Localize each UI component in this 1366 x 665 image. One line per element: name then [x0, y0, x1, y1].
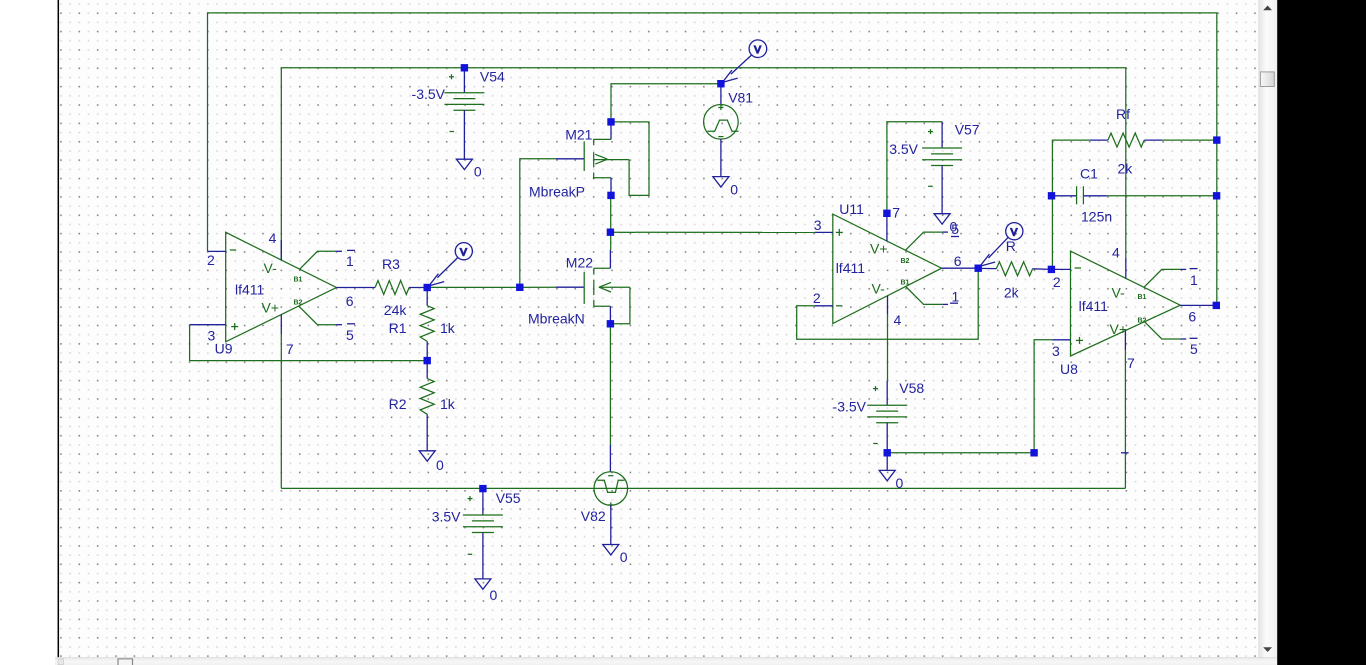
- M21 source lead: [594, 177, 611, 179]
- svg-text:lf411: lf411: [1079, 298, 1109, 314]
- junction Rf right: [1213, 136, 1220, 143]
- op-amp U9: [190, 230, 358, 357]
- M21 drain lead: [594, 138, 611, 140]
- svg-text:V: V: [460, 247, 467, 258]
- U8 triangle body: [1071, 251, 1181, 356]
- U11 offset pin 1: [906, 287, 943, 305]
- transistor M22 MbreakN: [528, 250, 630, 326]
- U8 offset pin 5: [1145, 322, 1181, 339]
- svg-text:0: 0: [620, 549, 628, 565]
- svg-text:6: 6: [1188, 309, 1196, 325]
- U8 pin 2 stub: [1051, 268, 1070, 270]
- junction M22 drain node: [607, 229, 614, 236]
- U9 triangle body: [226, 232, 337, 341]
- svg-text:6: 6: [346, 293, 354, 309]
- svg-text:6: 6: [954, 253, 962, 269]
- resistor Rf: [1090, 106, 1162, 177]
- svg-text:V82: V82: [581, 508, 606, 524]
- ground below V54: [456, 159, 482, 179]
- svg-text:V+: V+: [870, 241, 888, 257]
- svg-text:R2: R2: [389, 396, 407, 412]
- op-amp U11: [813, 201, 978, 328]
- svg-text:3.5V: 3.5V: [432, 508, 461, 524]
- svg-text:0: 0: [474, 164, 482, 180]
- U11 triangle body: [833, 214, 942, 323]
- svg-text:2: 2: [1053, 274, 1061, 290]
- svg-text:1k: 1k: [440, 396, 456, 412]
- svg-text:V81: V81: [728, 89, 753, 105]
- svg-text:-3.5V: -3.5V: [833, 399, 867, 415]
- svg-text:0: 0: [436, 457, 444, 473]
- svg-text:B2: B2: [294, 300, 303, 307]
- ground below V57: [934, 214, 957, 235]
- M21 gate pin: [556, 158, 584, 160]
- svg-text:0: 0: [490, 587, 498, 603]
- svg-text:3: 3: [1052, 343, 1060, 359]
- U8 pin 4 stub: [1125, 258, 1127, 278]
- svg-text:B2: B2: [901, 258, 910, 265]
- U11 pin 3 stub: [815, 231, 833, 233]
- svg-text:1: 1: [952, 289, 960, 305]
- transistor M21 MbreakP: [529, 122, 649, 200]
- U11 pin 6 output stub: [942, 267, 979, 269]
- svg-text:2k: 2k: [1004, 285, 1020, 301]
- svg-text:7: 7: [1127, 355, 1135, 371]
- junction U8 output: [1213, 302, 1220, 309]
- U9 pin 6 output stub: [336, 287, 357, 289]
- svg-text:0: 0: [730, 182, 738, 198]
- canvas left border line: [57, 0, 59, 657]
- wire C1 right: [1107, 195, 1217, 197]
- svg-text:M21: M21: [565, 127, 592, 143]
- wire U8 pin7 lower: [1124, 350, 1126, 488]
- svg-text:2: 2: [207, 252, 215, 268]
- wire Rf left vertical: [1052, 140, 1089, 269]
- wire M21 drain to V81 node: [611, 84, 721, 122]
- U8 pin 7 stub: [1124, 331, 1126, 350]
- wire M22 drain node to U11 pin3: [610, 231, 814, 233]
- junction R3-R1 node: [424, 284, 431, 291]
- wire U9 pin3 loop: [190, 325, 428, 361]
- wire V57 loop: [887, 122, 942, 214]
- svg-text:MbreakN: MbreakN: [528, 310, 585, 326]
- U9 pin 3 stub: [190, 324, 226, 326]
- battery V57: [889, 122, 980, 214]
- svg-text:U9: U9: [215, 341, 233, 357]
- U8 pin 6 output stub: [1180, 304, 1216, 306]
- svg-text:125n: 125n: [1081, 208, 1112, 224]
- svg-text:V-: V-: [264, 260, 278, 276]
- svg-text:5: 5: [346, 327, 354, 343]
- svg-text:C1: C1: [1080, 165, 1098, 181]
- svg-text:MbreakP: MbreakP: [529, 184, 585, 200]
- junction M22 source: [607, 320, 614, 327]
- junction M21 drain: [607, 118, 614, 125]
- svg-text:4: 4: [894, 312, 902, 328]
- svg-text:R3: R3: [382, 256, 400, 272]
- svg-text:2: 2: [813, 290, 821, 306]
- svg-text:V+: V+: [1110, 321, 1128, 337]
- M21 bulk lead with arrow: [594, 159, 629, 161]
- svg-text:V: V: [1011, 227, 1018, 238]
- junction R1-R2 node: [424, 357, 431, 364]
- svg-text:0: 0: [896, 475, 904, 491]
- U11 offset pin 5: [906, 232, 943, 250]
- resistor R1: [389, 288, 456, 361]
- junction C1 right: [1213, 192, 1220, 199]
- ground below V58: [879, 470, 903, 491]
- wire M22 source down to V82: [609, 324, 611, 445]
- U11 pin 4 stub: [887, 296, 889, 314]
- svg-text:Rf: Rf: [1116, 106, 1130, 122]
- svg-text:5: 5: [1190, 341, 1198, 357]
- junction V81 node: [717, 80, 724, 87]
- svg-text:V: V: [754, 45, 761, 56]
- junction U11 output: [975, 265, 982, 272]
- wire Rf right: [1162, 139, 1217, 141]
- svg-text:V55: V55: [496, 490, 521, 506]
- capacitor C1: [1052, 165, 1113, 224]
- svg-text:U8: U8: [1060, 361, 1078, 377]
- svg-text:B1: B1: [1138, 294, 1147, 301]
- junction gate node: [516, 284, 523, 291]
- junction V54 top: [461, 64, 468, 71]
- voltage probe at R3 node: [429, 243, 473, 286]
- svg-text:B1: B1: [294, 277, 303, 284]
- wire U9 pin7 to bottom rail: [280, 334, 282, 488]
- junction U11 pin7: [883, 210, 890, 217]
- wire M21 bulk to drain loop: [611, 122, 649, 195]
- ground below R2: [419, 451, 444, 473]
- svg-text:B2: B2: [1138, 318, 1147, 325]
- wire U11 feedback loop: [797, 268, 979, 339]
- svg-text:M22: M22: [566, 254, 593, 270]
- junction U8 pin3 wire: [1030, 449, 1037, 456]
- U9 pin 7 stub: [280, 315, 282, 335]
- M22 gate pin: [556, 286, 584, 288]
- svg-text:lf411: lf411: [836, 260, 866, 276]
- svg-text:-3.5V: -3.5V: [412, 86, 446, 102]
- bottom scrollbar: [55, 658, 1277, 665]
- svg-text:5: 5: [951, 221, 959, 237]
- svg-text:V54: V54: [480, 69, 505, 85]
- wire M22 bulk to source loop: [610, 287, 630, 324]
- wire U11 pin4 to V58: [887, 314, 889, 381]
- svg-text:7: 7: [892, 205, 900, 221]
- wire bottom rail: [281, 487, 1125, 489]
- U9 offset pin 5: [299, 306, 336, 325]
- U9 offset pin 1: [300, 251, 336, 269]
- svg-text:U11: U11: [839, 201, 864, 217]
- svg-text:1: 1: [1190, 272, 1198, 288]
- svg-text:3.5V: 3.5V: [889, 141, 918, 157]
- wire R3 node to gate node: [427, 286, 556, 288]
- svg-text:4: 4: [269, 230, 277, 246]
- svg-text:7: 7: [286, 341, 294, 357]
- svg-text:1k: 1k: [440, 320, 456, 336]
- U9 pin 4 stub: [280, 240, 282, 260]
- voltage probe at V81 node: [722, 40, 766, 83]
- U8 offset pin 1: [1144, 269, 1181, 287]
- ground below V81: [713, 177, 738, 198]
- ground below V82: [603, 545, 628, 566]
- battery V54: [412, 68, 505, 159]
- junction C1 left: [1048, 192, 1055, 199]
- source V81: [704, 84, 754, 177]
- wire M21 source to M22 drain: [610, 195, 612, 250]
- svg-text:lf411: lf411: [235, 282, 265, 298]
- source V82: [581, 445, 628, 545]
- svg-text:24k: 24k: [384, 302, 408, 318]
- voltage probe at U11 output: [980, 223, 1023, 267]
- black area right of window: [1277, 0, 1366, 665]
- junction V55 top: [479, 485, 486, 492]
- svg-text:1: 1: [346, 253, 354, 269]
- U9 pin 2 stub: [208, 250, 226, 252]
- wire top feedback rail: [208, 13, 1217, 306]
- wire gate node up to M21 gate: [520, 159, 556, 287]
- svg-text:2k: 2k: [1118, 161, 1134, 177]
- junction M21 source: [607, 192, 614, 199]
- svg-text:V-: V-: [872, 281, 886, 297]
- svg-text:V58: V58: [899, 380, 924, 396]
- svg-text:V57: V57: [955, 122, 980, 138]
- wire V+ rail (row 3): [281, 68, 1126, 260]
- wire V58 minus to U8 pin3: [887, 340, 1052, 453]
- svg-text:B1: B1: [901, 280, 910, 287]
- svg-text:R1: R1: [389, 320, 407, 336]
- resistor R2: [389, 361, 456, 451]
- ground below V55: [475, 579, 498, 603]
- battery V55: [432, 489, 521, 579]
- U11 pin 7 stub: [886, 213, 888, 241]
- right scrollbar: [1259, 0, 1277, 658]
- resistor R (2k): [978, 238, 1051, 301]
- wire tick on U8 pin7 line: [1121, 452, 1129, 454]
- svg-text:4: 4: [1112, 245, 1120, 261]
- battery V58: [833, 380, 925, 471]
- U8 pin 3 stub: [1053, 339, 1071, 341]
- svg-text:3: 3: [814, 217, 822, 233]
- junction V58 bottom: [884, 449, 891, 456]
- junction U8 pin2: [1048, 266, 1055, 273]
- svg-text:V-: V-: [1112, 285, 1126, 301]
- resistor R3: [357, 256, 427, 318]
- svg-text:V+: V+: [262, 300, 280, 316]
- U11 pin 2 stub: [815, 305, 833, 307]
- op-amp U8: [1051, 245, 1216, 378]
